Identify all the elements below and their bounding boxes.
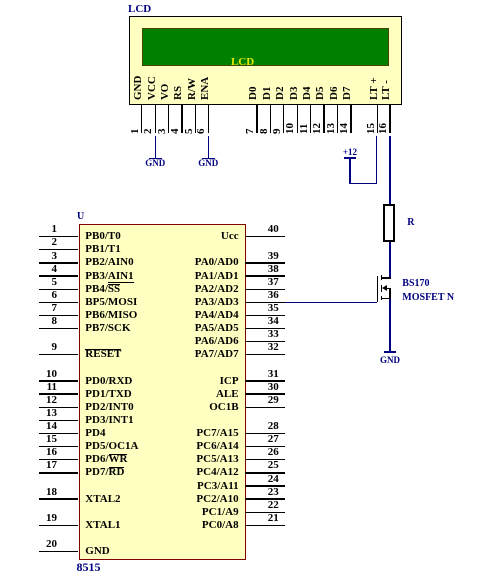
IC pin 18 (XTAL2) wire xyxy=(39,498,79,499)
IC pin 4 number xyxy=(26,263,57,276)
LCD pin label VCC xyxy=(146,76,159,100)
IC pin name XTAL1 xyxy=(85,519,120,532)
LCD pin 8 (D1) wire stub xyxy=(270,105,271,133)
LCD pin number 13 xyxy=(325,123,338,134)
LCD pin label LT + xyxy=(368,77,381,99)
LCD pin number 15 xyxy=(365,123,378,134)
IC pin name PB6/MISO xyxy=(85,309,137,322)
IC pin 39 number xyxy=(258,250,288,263)
IC pin name PC4/A12 xyxy=(130,466,239,479)
IC pin 24 number xyxy=(258,473,288,486)
IC pin name PC2/A10 xyxy=(130,493,239,506)
LCD pin label ENA xyxy=(199,76,212,99)
power +12 symbol xyxy=(341,146,359,159)
IC pin name PA5/AD5 xyxy=(130,322,239,335)
transistor Q1 BS170 MOSFET N xyxy=(377,276,379,302)
LCD pin number 14 xyxy=(338,123,351,134)
LCD pin label D6 xyxy=(328,86,341,99)
IC pin 20 number xyxy=(26,538,57,551)
LCD green display screen xyxy=(142,28,389,66)
IC pin 5 (PB4/SS) wire xyxy=(39,289,79,290)
IC pin name PD7/RD xyxy=(85,466,124,479)
IC pin 1 (PB0/T0) wire xyxy=(39,236,79,237)
ground at LCD pin 6 xyxy=(208,136,209,159)
IC pin 12 (PD2/INT0) wire xyxy=(39,407,79,408)
LCD pin label D3 xyxy=(288,86,301,99)
IC pin name GND xyxy=(85,545,109,558)
IC pin 2 (PB1/T1) wire xyxy=(39,249,79,250)
wire MOSFET source to ground xyxy=(389,299,390,352)
LCD pin 6 (ENA) wire stub xyxy=(208,105,209,133)
LCD pin 13 (D6) wire stub xyxy=(337,105,338,133)
IC pin 16 (PD6/WR) wire xyxy=(39,459,79,460)
LCD pin label D1 xyxy=(261,86,274,99)
IC pin 15 number xyxy=(26,433,57,446)
LCD pin 14 (D7) wire stub xyxy=(350,105,351,133)
IC pin 27 (PC6/A14) wire xyxy=(245,446,285,447)
IC pin 14 number xyxy=(26,420,57,433)
LCD pin label D5 xyxy=(314,86,327,99)
IC pin 8 number xyxy=(26,315,57,328)
IC pin 9 (RESET) wire xyxy=(39,354,79,355)
IC pin name PA7/AD7 xyxy=(130,348,239,361)
LCD module body xyxy=(129,16,402,106)
IC pin name PB4/SS xyxy=(85,283,120,296)
IC pin 11 (PD1/TXD) wire xyxy=(39,393,79,394)
IC pin 32 (PA7/AD7) wire xyxy=(245,354,285,355)
LCD pin number 3 xyxy=(156,129,169,135)
IC pin 1 number xyxy=(26,223,57,236)
LCD sheet symbol designator label xyxy=(128,3,151,16)
LCD pin 16 (LT -) wire stub xyxy=(389,105,390,133)
IC pin 40 (Ucc) wire xyxy=(245,236,285,237)
IC pin 27 number xyxy=(258,433,288,446)
IC pin 6 number xyxy=(26,289,57,302)
IC pin 34 (PA5/AD5) wire xyxy=(245,328,285,329)
IC pin 10 number xyxy=(26,368,57,381)
IC pin 18 number xyxy=(26,486,57,499)
IC pin 33 (PA6/AD6) wire xyxy=(245,341,285,342)
ground at LCD pin 2 xyxy=(155,136,156,159)
IC pin 11 number xyxy=(26,381,57,394)
IC pin 29 (OC1B) wire xyxy=(245,407,285,408)
LCD pin 3 (VO) wire stub xyxy=(168,105,169,133)
IC pin 25 (PC4/A12) wire xyxy=(245,472,285,473)
IC pin 9 number xyxy=(26,341,57,354)
wire from +12 to LCD pin 15 xyxy=(350,183,377,184)
IC pin name Ucc xyxy=(130,230,239,243)
LCD pin number 7 xyxy=(244,129,257,135)
IC pin 15 (PD5/OC1A) wire xyxy=(39,446,79,447)
LCD pin 10 (D3) wire stub xyxy=(297,105,298,133)
LCD pin 9 (D2) wire stub xyxy=(283,105,284,133)
IC pin 5 number xyxy=(26,276,57,289)
IC pin 23 (PC2/A10) wire xyxy=(245,498,285,499)
IC pin 24 (PC3/A11) wire xyxy=(245,485,285,486)
IC U designator xyxy=(77,210,84,223)
wire IC pin 36 (PA3/AD3) to MOSFET gate xyxy=(285,302,378,303)
IC pin name RESET xyxy=(85,348,121,361)
IC pin 7 number xyxy=(26,302,57,315)
IC pin name PD4 xyxy=(85,427,105,440)
IC pin 39 (PA0/AD0) wire xyxy=(245,262,285,263)
LCD pin number 12 xyxy=(311,123,324,134)
IC pin name ALE xyxy=(130,388,239,401)
IC pin 13 number xyxy=(26,407,57,420)
IC pin name PC1/A9 xyxy=(130,506,239,519)
IC pin 4 (PB3/AIN1) wire xyxy=(39,275,79,276)
IC pin 30 (ALE) wire xyxy=(245,393,285,394)
IC pin name XTAL2 xyxy=(85,493,120,506)
IC pin 22 (PC1/A9) wire xyxy=(245,512,285,513)
IC pin 7 (PB6/MISO) wire xyxy=(39,315,79,316)
IC pin name PD2/INT0 xyxy=(85,401,133,414)
IC pin 21 number xyxy=(258,512,288,525)
IC pin name PC0/A8 xyxy=(130,519,239,532)
LCD screen text xyxy=(223,56,263,69)
LCD pin number 4 xyxy=(169,129,182,135)
LCD pin label D2 xyxy=(274,86,287,99)
IC pin name PA4/AD4 xyxy=(130,309,239,322)
LCD pin 15 (LT +) wire stub xyxy=(377,105,378,133)
IC pin 19 number xyxy=(26,512,57,525)
LCD pin number 5 xyxy=(183,129,196,135)
IC pin 19 (XTAL1) wire xyxy=(39,525,79,526)
IC pin name PD3/INT1 xyxy=(85,414,133,427)
IC U 8515 body xyxy=(79,224,246,560)
LCD pin label D7 xyxy=(341,86,354,99)
LCD pin label D4 xyxy=(301,86,314,99)
IC pin name PB1/T1 xyxy=(85,243,120,256)
IC pin 3 number xyxy=(26,250,57,263)
IC pin 23 number xyxy=(258,486,288,499)
ground under MOSFET xyxy=(384,351,397,353)
LCD pin 11 (D4) wire stub xyxy=(310,105,311,133)
IC pin 20 (GND) wire xyxy=(39,551,79,552)
IC pin 16 number xyxy=(26,446,57,459)
IC pin 30 number xyxy=(258,381,288,394)
IC pin 36 number xyxy=(258,289,288,302)
IC pin 8 (PB7/SCK) wire xyxy=(39,328,79,329)
IC pin 2 number xyxy=(26,236,57,249)
LCD pin number 10 xyxy=(284,123,297,134)
wire LCD pin 16 to resistor R xyxy=(389,136,390,205)
IC pin 14 (PD4) wire xyxy=(39,433,79,434)
IC pin 35 (PA4/AD4) wire xyxy=(245,315,285,316)
LCD pin number 6 xyxy=(195,129,208,135)
IC pin 26 (PC5/A13) wire xyxy=(245,459,285,460)
IC pin name PA2/AD2 xyxy=(130,283,239,296)
IC pin name PA3/AD3 xyxy=(130,296,239,309)
IC pin 33 number xyxy=(258,328,288,341)
LCD pin 1 (GND) wire stub xyxy=(141,105,142,133)
IC pin 12 number xyxy=(26,394,57,407)
transistor labels BS170 MOSFET N xyxy=(402,277,429,290)
IC pin name PA6/AD6 xyxy=(130,335,239,348)
IC pin 29 number xyxy=(258,394,288,407)
IC pin name PD0/RXD xyxy=(85,375,132,388)
IC pin 31 number xyxy=(258,368,288,381)
IC pin 37 (PA2/AD2) wire xyxy=(245,289,285,290)
IC pin 38 number xyxy=(258,263,288,276)
IC pin 35 number xyxy=(258,302,288,315)
IC pin 22 number xyxy=(258,499,288,512)
IC pin 32 number xyxy=(258,341,288,354)
LCD pin 12 (D5) wire stub xyxy=(323,105,324,133)
LCD pin label RS xyxy=(172,85,185,99)
IC pin 3 (PB2/AIN0) wire xyxy=(39,262,79,263)
IC pin 28 (PC7/A15) wire xyxy=(245,433,285,434)
LCD pin label GND xyxy=(132,75,145,99)
LCD pin number 11 xyxy=(298,124,311,134)
IC pin 36 (PA3/AD3) wire xyxy=(245,302,285,303)
IC pin name PB0/T0 xyxy=(85,230,120,243)
LCD pin label R/W xyxy=(186,78,199,100)
IC pin name PD5/OC1A xyxy=(85,440,138,453)
IC pin name PA0/AD0 xyxy=(130,256,239,269)
LCD pin label D0 xyxy=(247,86,260,99)
IC pin name PC3/A11 xyxy=(130,480,239,493)
IC pin name PA1/AD1 xyxy=(130,270,239,283)
wire resistor to MOSFET drain xyxy=(389,242,390,278)
IC pin name ICP xyxy=(130,375,239,388)
LCD pin 5 (R/W) wire stub xyxy=(195,105,196,133)
LCD pin label LT - xyxy=(380,80,393,100)
LCD pin number 9 xyxy=(271,129,284,135)
LCD pin number 8 xyxy=(258,129,271,135)
IC pin 34 number xyxy=(258,315,288,328)
LCD pin number 1 xyxy=(129,129,142,135)
IC pin 13 (PD3/INT1) wire xyxy=(39,420,79,421)
LCD pin 7 (D0) wire stub xyxy=(256,105,257,133)
LCD pin 2 (VCC) wire stub xyxy=(155,105,156,133)
IC pin 40 number xyxy=(258,223,288,236)
resistor designator R xyxy=(407,216,414,229)
IC pin name PC5/A13 xyxy=(130,453,239,466)
IC pin 17 (PD7/RD) wire xyxy=(39,472,79,473)
IC pin 6 (BP5/MOSI) wire xyxy=(39,302,79,303)
IC pin 31 (ICP) wire xyxy=(245,380,285,381)
LCD pin label VO xyxy=(159,83,172,99)
IC pin name PB7/SCK xyxy=(85,322,130,335)
IC pin 38 (PA1/AD1) wire xyxy=(245,275,285,276)
LCD pin number 2 xyxy=(142,129,155,135)
IC pin 17 number xyxy=(26,459,57,472)
IC pin name PC7/A15 xyxy=(130,427,239,440)
IC pin name PD1/TXD xyxy=(85,388,131,401)
IC pin name PB2/AIN0 xyxy=(85,256,133,269)
IC pin name OC1B xyxy=(130,401,239,414)
resistor R xyxy=(383,204,395,242)
LCD pin 4 (RS) wire stub xyxy=(181,105,182,133)
IC pin name PC6/A14 xyxy=(130,440,239,453)
IC pin 21 (PC0/A8) wire xyxy=(245,525,285,526)
IC pin 28 number xyxy=(258,420,288,433)
IC pin 26 number xyxy=(258,446,288,459)
IC pin name PD6/WR xyxy=(85,453,127,466)
IC pin 10 (PD0/RXD) wire xyxy=(39,380,79,381)
IC pin name PB3/AIN1 xyxy=(85,270,133,283)
IC part number 8515 xyxy=(77,561,101,574)
IC pin 25 number xyxy=(258,459,288,472)
IC pin 37 number xyxy=(258,276,288,289)
LCD pin number 16 xyxy=(377,123,390,134)
IC pin name BP5/MOSI xyxy=(85,296,137,309)
